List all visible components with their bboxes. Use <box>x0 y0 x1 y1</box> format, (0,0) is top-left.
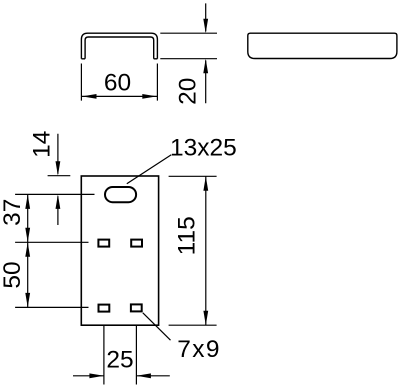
svg-text:14: 14 <box>28 131 55 158</box>
leader for square hole label <box>143 313 171 340</box>
square hole mid-left 7x9 <box>98 240 109 247</box>
dimension 20 (leg height) <box>160 3 217 105</box>
dimension 14 (top edge to slot centre) <box>28 131 70 225</box>
slot hole 13x25 <box>105 187 136 202</box>
square hole bottom-right 7x9 <box>131 304 142 311</box>
svg-text:7x9: 7x9 <box>177 336 219 363</box>
svg-text:20: 20 <box>174 78 201 105</box>
middle holes centreline <box>15 241 88 243</box>
channel profile (top view, U-shaped cross-section) <box>81 33 157 59</box>
dimension 115 (plate height) <box>169 176 217 325</box>
square hole mid-right 7x9 <box>131 240 142 247</box>
dimension 50 (middle holes centre to bottom holes centre) <box>0 242 30 307</box>
svg-text:60: 60 <box>104 69 131 96</box>
dimension 60 (channel width) <box>81 64 157 101</box>
svg-text:37: 37 <box>0 199 26 226</box>
svg-text:50: 50 <box>0 261 26 288</box>
svg-text:25: 25 <box>106 347 133 374</box>
square hole bottom-left 7x9 <box>99 305 110 312</box>
dimension 25 (bottom hole spacing) <box>73 326 170 385</box>
svg-text:13x25: 13x25 <box>170 134 237 161</box>
svg-text:115: 115 <box>174 216 201 255</box>
bottom holes centreline <box>15 306 88 308</box>
flat bar (side view) <box>248 33 397 58</box>
slot centreline <box>15 193 94 195</box>
dimension 37 (slot centre to middle holes centre) <box>0 194 30 242</box>
leader for slot label <box>127 155 172 184</box>
mounting plate (front view) <box>81 176 158 325</box>
